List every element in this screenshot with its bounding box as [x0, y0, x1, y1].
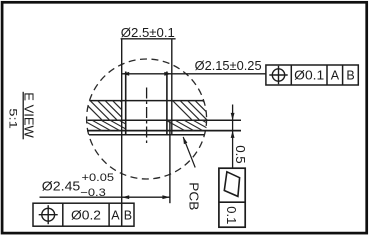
pin left edge	[125, 72, 127, 135]
solder layer bottom line (extends right to 0.5 dimension)	[87, 130, 241, 132]
hatching solder right	[163, 119, 225, 134]
svg-text:Ø2.45: Ø2.45	[42, 179, 81, 194]
E VIEW underline	[22, 92, 24, 140]
svg-text:B: B	[124, 208, 132, 222]
feature control frame top right	[266, 65, 358, 85]
svg-text:A: A	[331, 69, 340, 83]
svg-text:5:1: 5:1	[6, 108, 18, 129]
hole wall left / extension line	[121, 39, 123, 204]
svg-text:Ø0.1: Ø0.1	[294, 69, 324, 83]
svg-text:A: A	[111, 208, 120, 222]
flatness FCF vertical box	[219, 168, 245, 227]
svg-text:B: B	[346, 69, 354, 83]
detail view dashed circle	[87, 59, 207, 179]
arrowhead left (points left)	[122, 195, 130, 199]
hatching PCB left	[78, 96, 230, 133]
arrowhead right (points right)	[162, 195, 170, 199]
PCB top surface line	[90, 100, 204, 102]
arrowhead down to top line	[231, 113, 235, 120]
hatching solder left	[80, 119, 142, 134]
centerline	[146, 88, 148, 144]
extension line lower right	[169, 120, 171, 203]
dimension line / leader to FCF	[122, 73, 266, 75]
svg-text:Ø2.5±0.1: Ø2.5±0.1	[121, 25, 175, 40]
0.5 dimension line vertical	[232, 105, 234, 169]
svg-text:0.5: 0.5	[233, 145, 248, 164]
hole wall right / extension line upper	[171, 39, 173, 135]
arrowhead right	[164, 72, 172, 76]
svg-text:PCB: PCB	[186, 182, 201, 210]
flatness parallelogram symbol	[224, 172, 239, 197]
PCB leader line	[183, 137, 195, 168]
svg-text:Ø0.2: Ø0.2	[71, 208, 101, 222]
PCB leader arrowhead	[183, 137, 187, 145]
position symbol	[39, 205, 58, 224]
arrowhead left	[122, 72, 130, 76]
pin right edge	[166, 72, 168, 135]
position symbol	[269, 66, 287, 84]
bottom layer line	[89, 134, 204, 136]
underline of D2.5 text	[121, 38, 176, 40]
PCB bottom surface line (extends right to 0.5 dimension)	[88, 119, 242, 121]
svg-text:+0.05: +0.05	[82, 172, 115, 184]
svg-text:0.1: 0.1	[224, 206, 238, 224]
hatching PCB right	[168, 96, 230, 128]
arrowhead up to bottom line	[231, 131, 235, 138]
underline / dimension line D2.45	[40, 196, 170, 198]
svg-text:Ø2.15±0.25: Ø2.15±0.25	[195, 58, 262, 73]
feature control frame bottom left	[33, 203, 134, 226]
